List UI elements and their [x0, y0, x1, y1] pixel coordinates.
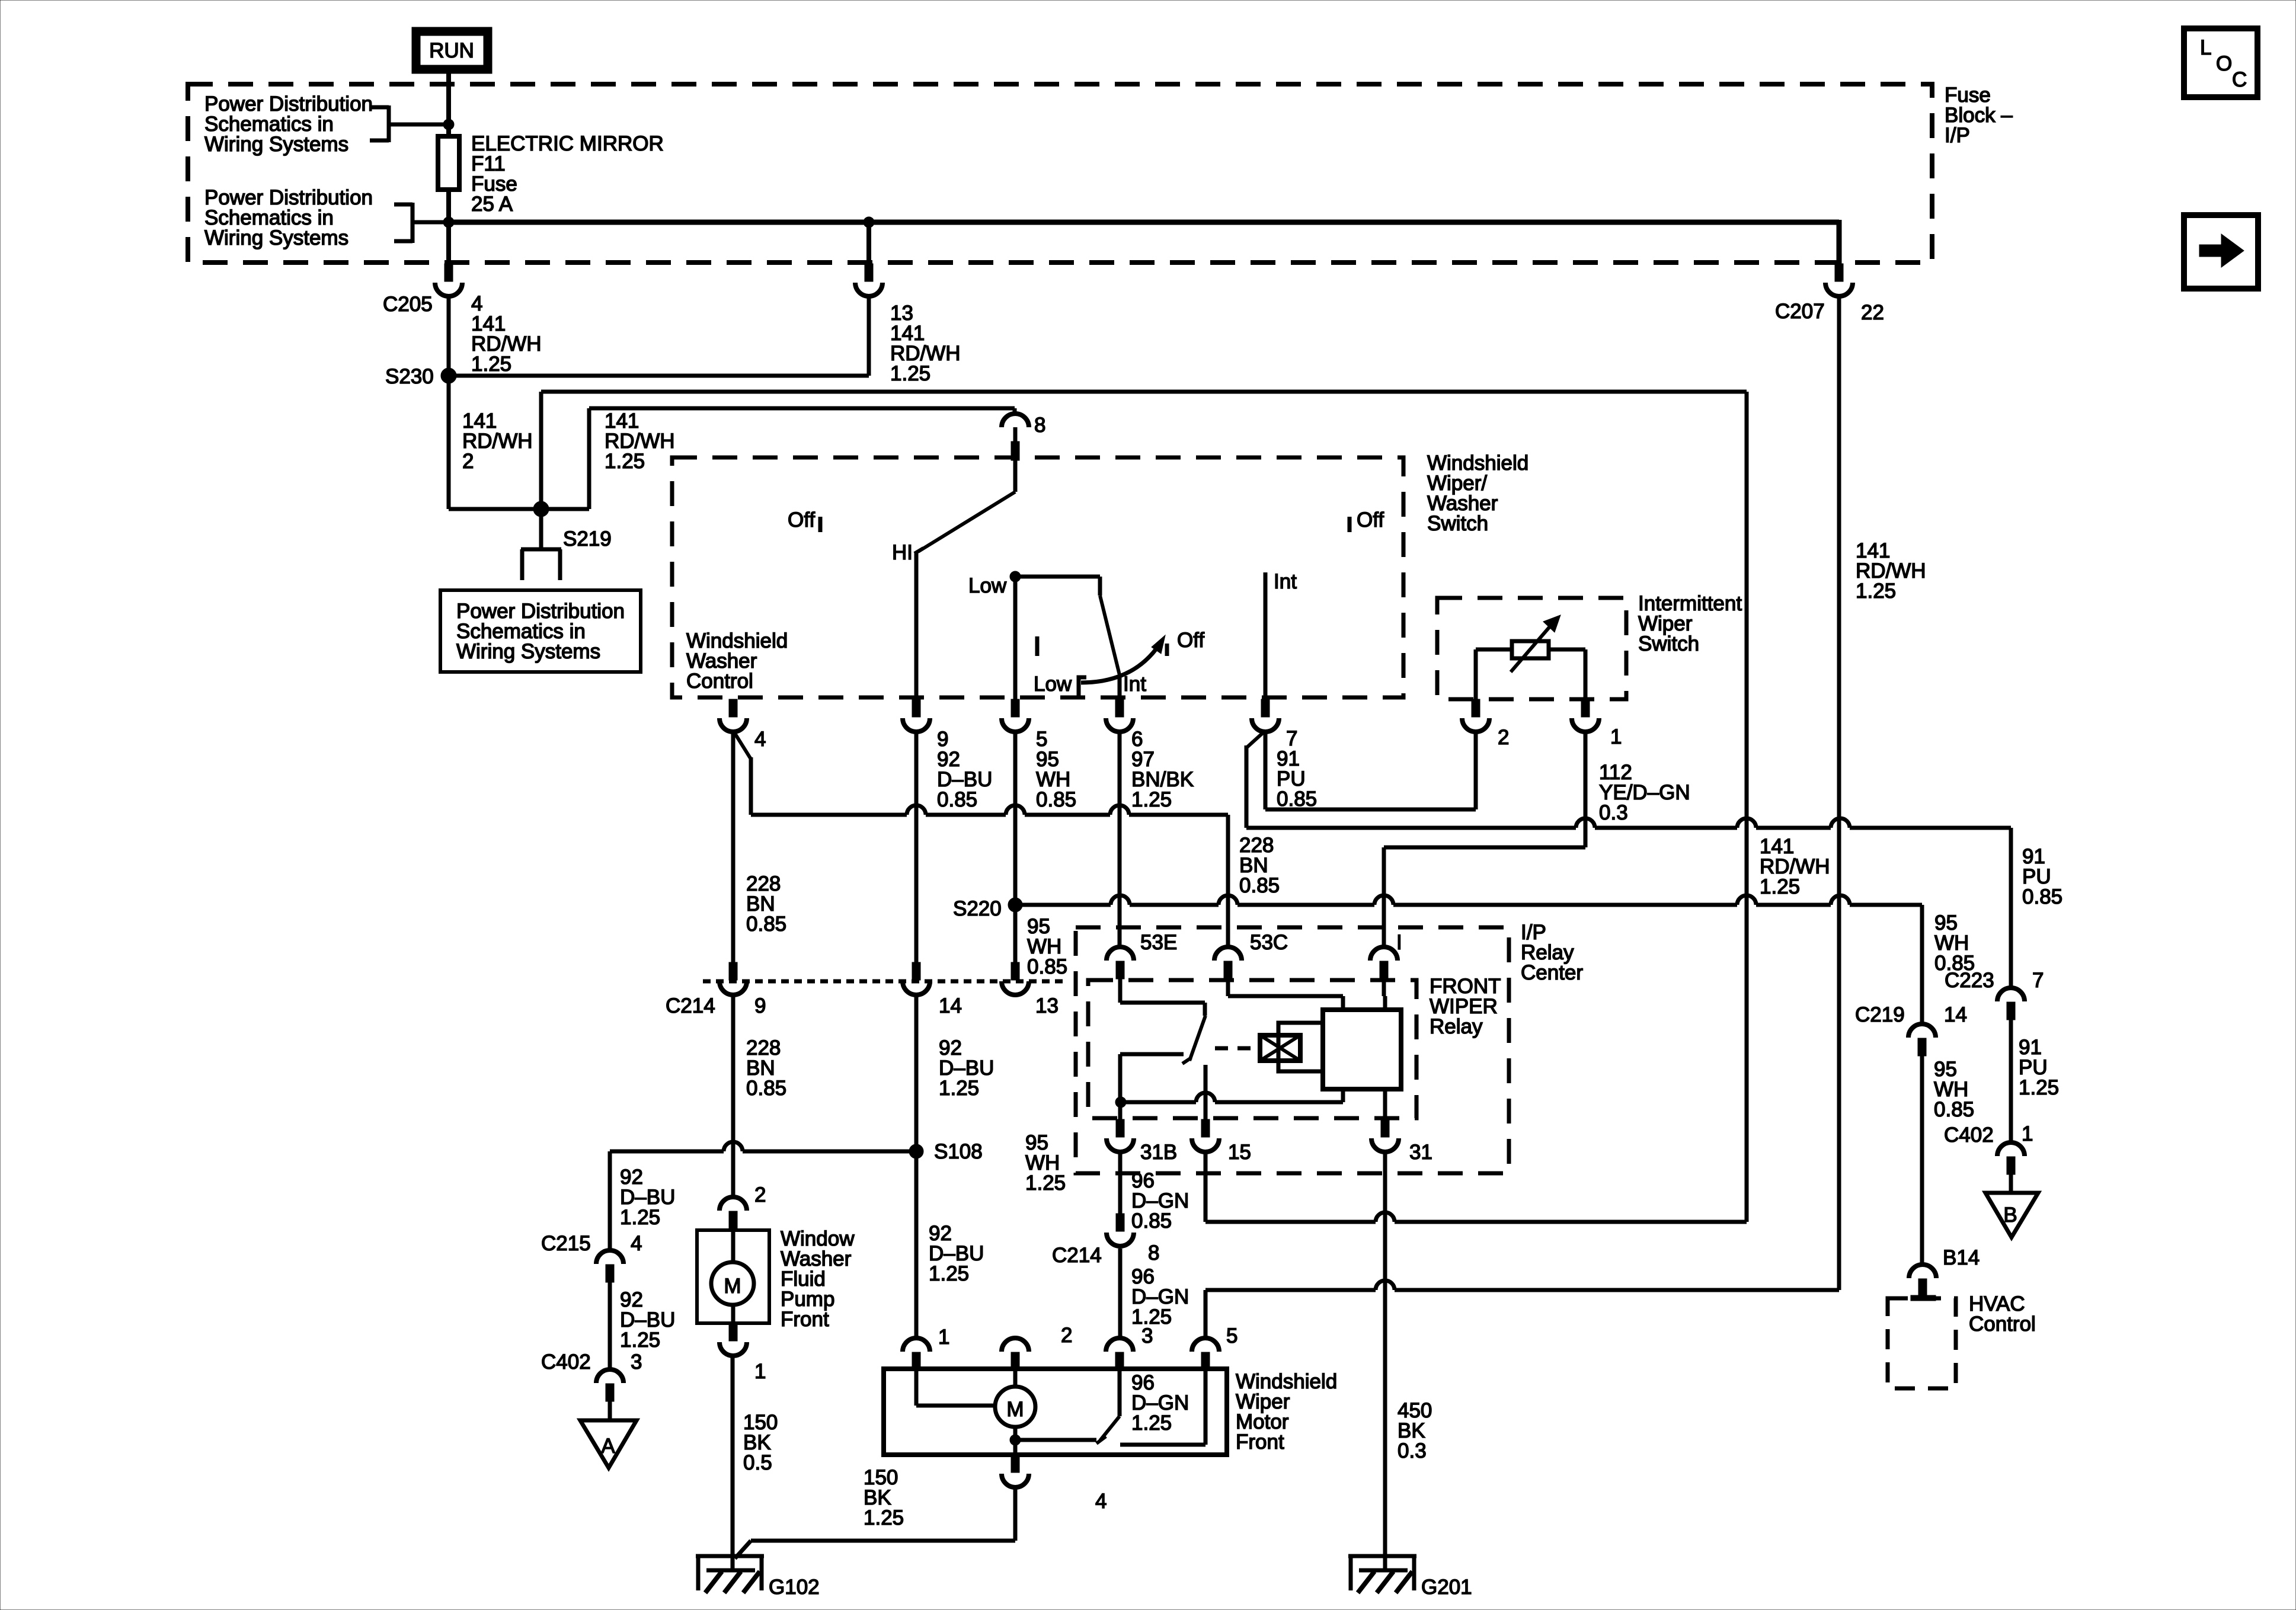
wire pin4 branch to 228 bus: [733, 731, 751, 815]
splice S108: [909, 1144, 923, 1158]
wire pin7 to pin2 link: [1265, 730, 1476, 809]
label 228 BN 0.85 (below C214): [746, 1036, 786, 1100]
label 13: [1035, 994, 1059, 1017]
label 2: [1498, 726, 1509, 749]
power distribution schematics box: [440, 590, 641, 672]
tick Low lower: [1079, 677, 1086, 696]
relay switch blade: [1182, 1016, 1205, 1064]
svg-text:HI: HI: [892, 541, 913, 564]
label ELECTRIC MIRROR F11 fuse: [471, 132, 664, 216]
label 95 WH 0.85 (to HVAC): [1934, 1058, 1974, 1121]
svg-text:C215: C215: [541, 1232, 591, 1255]
ground G102: [696, 1556, 820, 1599]
svg-text:2: 2: [754, 1183, 766, 1206]
Low blade: [1015, 577, 1120, 699]
relay pin 31 connector: [1371, 1119, 1399, 1152]
window washer fluid pump box: [697, 1230, 769, 1323]
motor pin2 internal: [1013, 1370, 1018, 1388]
relay pin 31B connector: [1107, 1119, 1134, 1152]
label 4: [754, 728, 766, 751]
svg-text:22: 22: [1861, 301, 1884, 324]
label 96 D-GN 1.25 (motor): [1131, 1371, 1189, 1435]
ground G201: [1348, 1556, 1472, 1599]
svg-text:0.85: 0.85: [937, 788, 977, 811]
wire label 13 141 RD/WH 1.25: [890, 302, 961, 385]
label C205: [383, 293, 433, 316]
Off selector arc with arrow: [1081, 635, 1167, 683]
arrow reference box: [2184, 215, 2258, 289]
relay pin I connector: [1370, 947, 1398, 979]
relay coil element: [1260, 1035, 1300, 1061]
svg-text:14: 14: [939, 994, 962, 1017]
wire S230 down: [447, 376, 451, 509]
label 228 BN 0.85 (bus): [1239, 834, 1280, 897]
connector C402 pin 1: [1997, 1142, 2025, 1174]
svg-text:Control: Control: [1969, 1313, 2036, 1336]
label 92 D-BU 1.25 (S108 left): [620, 1166, 675, 1229]
node at fuse top: [443, 119, 454, 130]
relay coil box: [1323, 1010, 1401, 1089]
svg-text:Off: Off: [1357, 508, 1384, 532]
label 14: [939, 994, 962, 1017]
label 3 (C402): [631, 1350, 642, 1374]
fuse F11 25A: [438, 136, 459, 190]
label Int (upper): [1274, 570, 1297, 593]
svg-text:S230: S230: [385, 365, 434, 388]
tick Off right: [1348, 517, 1352, 532]
label 8: [1148, 1241, 1159, 1265]
svg-text:1.25: 1.25: [1131, 1411, 1172, 1435]
label C219: [1855, 1003, 1905, 1026]
label 9: [754, 994, 766, 1017]
label Int (lower): [1123, 673, 1146, 696]
label C215: [541, 1232, 591, 1255]
label 92 D-BU 1.25 (to C402): [620, 1288, 675, 1352]
connector switch pin 1: [1572, 699, 1599, 732]
svg-text:7: 7: [2032, 969, 2044, 992]
svg-text:8: 8: [1034, 414, 1045, 437]
svg-text:0.3: 0.3: [1599, 801, 1628, 824]
svg-text:31: 31: [1409, 1141, 1432, 1164]
connector motor pin 1: [903, 1338, 930, 1370]
motor pin1 internal: [916, 1370, 996, 1406]
svg-text:C214: C214: [666, 994, 715, 1017]
label 2 (motor): [1061, 1324, 1072, 1347]
svg-text:Front: Front: [781, 1308, 829, 1331]
svg-text:Front: Front: [1236, 1430, 1284, 1454]
svg-text:B: B: [2003, 1204, 2017, 1227]
wire pin1 to relay I: [1384, 730, 1585, 947]
off-page bracket to fuse F11 line: [370, 105, 449, 142]
connector switch pin 4: [720, 699, 747, 732]
relay 53E internal wire: [1120, 979, 1205, 1016]
tick I: [1035, 636, 1040, 656]
wire S219 up-right branch (141 to relay 15): [541, 392, 1747, 1222]
label windshield washer control: [686, 629, 788, 693]
svg-text:Switch: Switch: [1638, 632, 1699, 655]
off-page triangle A: [580, 1420, 637, 1468]
label Fuse Block I/P: [1945, 84, 2013, 147]
svg-text:0.85: 0.85: [1027, 955, 1067, 978]
LOC reference box: [2184, 28, 2257, 97]
label 2 (pump): [754, 1183, 766, 1206]
svg-text:1.25: 1.25: [620, 1206, 660, 1229]
svg-text:3: 3: [631, 1350, 642, 1374]
wire C214-8 to motor pin 3: [1118, 1249, 1123, 1338]
svg-text:C205: C205: [383, 293, 433, 316]
svg-text:Relay: Relay: [1430, 1015, 1483, 1038]
label C402: [541, 1350, 591, 1374]
svg-text:Int: Int: [1123, 673, 1146, 696]
svg-text:1.25: 1.25: [471, 353, 511, 376]
connector C223 pin 7: [1997, 988, 2025, 1020]
svg-text:G201: G201: [1421, 1576, 1472, 1599]
svg-text:0.85: 0.85: [1239, 874, 1280, 897]
wire label 4 141 RD/WH 1.25: [471, 292, 542, 376]
svg-text:1: 1: [2022, 1122, 2033, 1145]
connector C214 pin 9: [720, 962, 747, 995]
label 7 91 PU 0.85: [1277, 727, 1317, 811]
svg-text:4: 4: [754, 728, 766, 751]
label Low (upper): [968, 574, 1007, 597]
label 95 WH 1.25: [1025, 1131, 1066, 1195]
svg-text:1.25: 1.25: [1025, 1172, 1066, 1195]
label 31B: [1140, 1141, 1177, 1164]
wire pin4 to C214-9: [731, 730, 736, 962]
wire C219 to B14: [1920, 1056, 1924, 1265]
label C207: [1775, 300, 1825, 323]
label C402 (right): [1944, 1124, 1994, 1147]
svg-text:C214: C214: [1052, 1244, 1102, 1267]
svg-text:1.25: 1.25: [929, 1262, 969, 1285]
svg-text:0.85: 0.85: [746, 913, 786, 936]
connector C205 pin 4: [435, 264, 462, 296]
svg-text:13: 13: [1035, 994, 1059, 1017]
node on main feed: [443, 217, 454, 228]
wire fuse to C205: [446, 190, 451, 264]
wire motor pin4 to ground: [735, 1487, 1015, 1558]
wire C205 to S230: [447, 296, 451, 376]
svg-text:B14: B14: [1943, 1246, 1980, 1269]
front wiper relay dashed box: [1088, 980, 1416, 1118]
svg-text:0.85: 0.85: [1036, 788, 1076, 811]
svg-text:0.85: 0.85: [1934, 1098, 1974, 1121]
wire label 141 RD/WH 2: [462, 409, 533, 473]
wire 31B to C214-8: [1118, 1153, 1123, 1214]
relay pin 15 connector: [1192, 1119, 1219, 1152]
wire S230 corner to S219: [449, 507, 541, 511]
splice S219: [533, 501, 549, 517]
label 150 BK 1.25: [864, 1466, 904, 1529]
wire C402 to triangle A: [608, 1401, 612, 1422]
relay lower contact: [1120, 1054, 1184, 1119]
relay pin I internal wire: [1384, 979, 1385, 1010]
svg-text:I: I: [1396, 931, 1402, 954]
svg-text:5: 5: [1226, 1324, 1237, 1347]
label S220: [953, 897, 1002, 920]
label 91 PU 0.85 (right): [2022, 845, 2062, 908]
wire C402 to triangle B: [2009, 1174, 2013, 1194]
svg-text:I/P: I/P: [1945, 124, 1970, 147]
ignition switch RUN feed box: [412, 27, 492, 73]
label 31: [1409, 1141, 1432, 1164]
svg-text:S220: S220: [953, 897, 1002, 920]
label 53C: [1250, 931, 1288, 954]
svg-text:4: 4: [1095, 1490, 1107, 1513]
svg-text:53C: 53C: [1250, 931, 1288, 954]
windshield wiper motor box: [884, 1369, 1227, 1455]
label windshield wiper motor front: [1236, 1370, 1337, 1454]
label 53E: [1140, 931, 1177, 954]
label 96 D-GN 1.25: [1131, 1265, 1189, 1329]
off-page bracket to main feed wire: [394, 203, 449, 243]
wire S108 to C215: [610, 1142, 916, 1250]
svg-text:2: 2: [1498, 726, 1509, 749]
connector switch pin 5: [1002, 699, 1029, 732]
wire pin7 branch 91 PU bus: [1246, 731, 2011, 988]
label 1 (motor): [938, 1326, 949, 1349]
connector C215 pin 4: [596, 1250, 623, 1282]
svg-text:C219: C219: [1855, 1003, 1905, 1026]
connector switch pin 2: [1462, 699, 1489, 732]
connector C214 pin 13: [1002, 962, 1029, 995]
splice S230: [441, 368, 456, 383]
label 9 92 D-BU 0.85: [937, 728, 992, 811]
wire label 141 RD/WH 1.25 (C207 drop): [1856, 539, 1926, 603]
label 8: [1034, 414, 1045, 437]
connector C402 pin 3: [596, 1369, 623, 1401]
svg-text:Wiring Systems: Wiring Systems: [204, 133, 348, 156]
svg-text:M: M: [724, 1275, 741, 1298]
wire pin15 run: [1205, 1153, 1747, 1222]
wire pin31 to G201: [1383, 1153, 1387, 1570]
label 95 WH 0.85 (S220 drop): [1934, 911, 1975, 975]
svg-text:2: 2: [462, 450, 474, 473]
svg-text:25 A: 25 A: [471, 193, 513, 216]
svg-text:Center: Center: [1521, 961, 1583, 984]
relay pin15 internal wire: [1204, 1065, 1208, 1119]
label Low (lower): [1034, 673, 1072, 696]
label 7 (C223): [2032, 969, 2044, 992]
splice Low: [1010, 571, 1021, 582]
svg-text:Wiring Systems: Wiring Systems: [204, 226, 348, 249]
label intermittent wiper switch: [1638, 592, 1742, 655]
label power distribution (box): [456, 600, 625, 663]
svg-text:0.85: 0.85: [1934, 952, 1975, 975]
svg-text:Switch: Switch: [1427, 512, 1488, 535]
svg-text:0.85: 0.85: [1277, 788, 1317, 811]
svg-text:1.25: 1.25: [864, 1506, 904, 1529]
wire C207 to motor pin 5: [1205, 296, 1839, 1338]
svg-text:0.85: 0.85: [1131, 1209, 1172, 1233]
relay pin 53C connector: [1214, 947, 1242, 979]
motor node: [1010, 1435, 1021, 1445]
windshield wiper/washer switch dashed box: [672, 457, 1403, 697]
intermittent wiper switch dashed box: [1437, 598, 1626, 699]
wire pin5 vertical: [1013, 577, 1018, 699]
svg-text:C207: C207: [1775, 300, 1825, 323]
label 95 WH 0.85 (S220): [1027, 915, 1067, 978]
svg-text:1.25: 1.25: [2019, 1076, 2059, 1099]
connector motor pin 3: [1106, 1338, 1133, 1370]
wire pin9 lower segment: [914, 996, 919, 1338]
label C223: [1945, 969, 1994, 992]
svg-text:14: 14: [1944, 1003, 1967, 1026]
svg-text:9: 9: [754, 994, 766, 1017]
label 1 (C402): [2022, 1122, 2033, 1145]
label C214 (second): [1052, 1244, 1102, 1267]
svg-text:2: 2: [1061, 1324, 1072, 1347]
relay pin 53E connector: [1107, 947, 1134, 979]
wire S219 second branch to switch pin 8: [541, 408, 1015, 509]
svg-text:1.25: 1.25: [1856, 580, 1896, 603]
wire S220 drop to C219: [1920, 905, 1924, 1024]
relay wire contact to coil: [1120, 1089, 1343, 1102]
label 228 BN 0.85 (pin4): [746, 872, 786, 936]
svg-text:31B: 31B: [1140, 1141, 1177, 1164]
off-page triangle B: [1985, 1193, 2038, 1237]
connector C207 pin 22: [1825, 264, 1853, 296]
wire pump to G102: [731, 1356, 735, 1570]
wire pin6 to relay 53E: [1118, 730, 1122, 947]
label 450 BK 0.3: [1398, 1399, 1432, 1462]
label 92 D-BU 1.25 (wire 9): [929, 1222, 984, 1285]
rheostat (variable resistor): [1476, 615, 1585, 699]
svg-text:1.25: 1.25: [1760, 875, 1800, 898]
svg-text:M: M: [1006, 1398, 1024, 1421]
label window washer fluid pump front: [781, 1227, 855, 1331]
connector C219 pin 14: [1908, 1024, 1936, 1056]
label 22: [1861, 301, 1884, 324]
svg-text:53E: 53E: [1140, 931, 1177, 954]
label S108: [934, 1140, 983, 1163]
svg-text:1: 1: [938, 1326, 949, 1349]
connector row C214 dotted line: [703, 980, 1067, 984]
svg-text:L: L: [2200, 36, 2211, 59]
connector washer pump pin 1: [720, 1323, 747, 1356]
svg-text:1: 1: [1610, 725, 1622, 748]
svg-text:Off: Off: [1177, 629, 1204, 652]
off-page staple symbol: [521, 549, 561, 580]
svg-text:1.25: 1.25: [620, 1329, 660, 1352]
label S219: [563, 527, 612, 550]
connector washer pump pin 2: [720, 1197, 747, 1229]
connector pin 8: [1002, 414, 1029, 460]
svg-text:15: 15: [1228, 1141, 1251, 1164]
label 1 (pump): [754, 1360, 766, 1383]
label 15: [1228, 1141, 1251, 1164]
splice S220: [1008, 898, 1022, 912]
washer pump motor: [711, 1229, 754, 1323]
label 5 (motor): [1226, 1324, 1237, 1347]
svg-text:1.25: 1.25: [939, 1077, 979, 1100]
label 96 D-GN 0.85: [1131, 1169, 1189, 1233]
label 6 97 BN/BK 1.25: [1131, 728, 1194, 811]
label HVAC control: [1969, 1292, 2036, 1336]
wiper motor M: [995, 1387, 1035, 1427]
wire pin5 down: [1013, 730, 1018, 962]
wire node to pin13 stub: [866, 222, 871, 264]
wire S230 to pin13 drop: [449, 296, 869, 376]
label 3: [1141, 1324, 1153, 1347]
connector motor pin 2: [1002, 1338, 1029, 1370]
connector motor pin 4: [1002, 1455, 1029, 1487]
wire Int vertical: [1264, 572, 1268, 699]
svg-text:3: 3: [1141, 1324, 1153, 1347]
connector B14: [1909, 1265, 1936, 1301]
label 4 (C215): [631, 1232, 642, 1255]
label power distribution (second): [204, 186, 373, 249]
main feed wire 141: [449, 220, 1839, 264]
label 1 112 YE/D-GN 0.3: [1599, 725, 1690, 824]
svg-text:Low: Low: [1034, 673, 1072, 696]
wire pin4 washer to pump: [731, 996, 736, 1197]
node main feed to pin 13: [864, 217, 874, 228]
motor park contact: [1120, 1370, 1205, 1445]
svg-text:1.25: 1.25: [605, 450, 645, 473]
svg-text:O: O: [2216, 52, 2232, 75]
connector C214 pin 8: [1107, 1214, 1134, 1246]
svg-text:0.85: 0.85: [746, 1077, 786, 1100]
connector C214 pin 14: [903, 962, 930, 995]
svg-text:Wiring Systems: Wiring Systems: [456, 640, 600, 663]
motor internal to park blade: [1015, 1427, 1096, 1457]
label C214: [666, 994, 715, 1017]
label HI: [892, 541, 913, 564]
svg-text:1.25: 1.25: [1131, 788, 1172, 811]
connector switch pin 7: [1252, 699, 1279, 732]
svg-text:S219: S219: [563, 527, 612, 550]
svg-text:C402: C402: [541, 1350, 591, 1374]
label I: [1396, 931, 1402, 954]
relay pin 31 internal wire: [1383, 1089, 1387, 1119]
wire C223 to C402: [2009, 1020, 2013, 1143]
label B14: [1943, 1246, 1980, 1269]
svg-text:0.85: 0.85: [2022, 885, 2062, 908]
label 5 95 WH 0.85: [1036, 728, 1076, 811]
label power distribution (top): [204, 92, 373, 156]
tick Off left: [818, 517, 823, 532]
connector switch pin 6: [1106, 699, 1133, 732]
svg-text:0.5: 0.5: [743, 1451, 772, 1474]
svg-text:C: C: [2232, 68, 2247, 91]
connector switch pin 9: [903, 699, 930, 732]
I/P relay center dashed box: [1076, 927, 1509, 1173]
connector motor pin 5: [1192, 1338, 1219, 1370]
label 92 D-BU 1.25 (below C214): [939, 1036, 994, 1100]
label 150 BK 0.5: [743, 1411, 778, 1474]
relay coil bracket: [1278, 1023, 1323, 1071]
connector C205 pin 13: [855, 264, 882, 296]
label Off (selector): [1177, 629, 1204, 652]
label Off (right): [1357, 508, 1384, 532]
fuse block I/P dashed outline: [188, 84, 1932, 263]
relay mechanical link dashed: [1215, 1046, 1258, 1051]
label 141 RD/WH 1.25 (feed): [1760, 835, 1830, 898]
wire C215 to C402: [608, 1282, 612, 1369]
bus 228 BN: [751, 805, 1228, 947]
label 91 PU 1.25: [2019, 1036, 2059, 1099]
svg-text:Off: Off: [788, 508, 815, 532]
svg-text:Control: Control: [686, 670, 753, 693]
label Off (left): [788, 508, 815, 532]
relay 53C internal wire: [1228, 979, 1343, 1010]
svg-text:1: 1: [754, 1360, 766, 1383]
wire label 141 RD/WH 1.25 (S219 branch): [605, 409, 675, 473]
label FRONT WIPER relay: [1430, 975, 1501, 1038]
motor park blade: [1096, 1370, 1120, 1443]
svg-text:RUN: RUN: [429, 39, 474, 62]
